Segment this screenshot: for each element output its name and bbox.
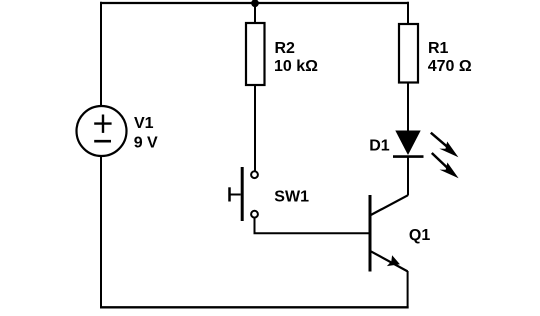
transistor Q1 base bar [369,195,372,272]
svg-text:R1: R1 [428,40,449,57]
wire R2 bottom lead to SW1 [254,85,256,171]
switch SW1 plunger stem [230,194,241,196]
transistor Q1 emitter diagonal [371,251,408,271]
LED light arrow 2 [432,153,459,178]
switch SW1 actuator bar [241,167,244,221]
wire Q1 emitter to bottom rail [407,271,409,308]
LED D1 cathode bar [393,155,424,158]
LED D1 triangle [395,131,420,156]
label V1 9 V [134,115,158,152]
resistor R1 body [399,24,418,83]
voltage source V1 circle [77,106,127,156]
svg-text:D1: D1 [369,138,390,155]
wire top rail [100,2,409,4]
V1 plus sign [94,115,111,133]
wire left upper (top rail to V1) [100,2,102,107]
svg-text:R2: R2 [275,40,296,57]
svg-text:9 V: 9 V [134,135,158,152]
LED light arrow 1 [431,133,459,158]
svg-text:SW1: SW1 [274,189,309,206]
switch SW1 top contact circle [251,171,258,178]
V1 minus sign [94,140,111,143]
label R2 10 kOhm [274,40,318,75]
wire R2 top lead [254,3,256,24]
svg-text:V1: V1 [134,115,154,132]
wire R1 to LED D1 [407,83,409,132]
wire SW1 to Q1 base [255,218,370,234]
transistor Q1 emitter arrowhead [387,255,400,266]
transistor Q1 collector diagonal [371,195,408,215]
switch SW1 bottom contact circle [251,211,258,218]
wire bottom rail [100,306,409,308]
label R1 470 Ohm [428,40,472,75]
svg-text:Q1: Q1 [409,227,430,244]
switch SW1 plunger cap [228,187,231,201]
resistor R2 body [246,23,265,85]
svg-text:10 kΩ: 10 kΩ [274,58,318,75]
svg-text:470 Ω: 470 Ω [428,58,472,75]
node junction dot on top rail [251,0,259,7]
wire left lower (V1 to bottom rail) [100,156,102,308]
wire right upper (top rail to R1) [407,2,409,25]
wire LED to Q1 collector [407,156,409,196]
